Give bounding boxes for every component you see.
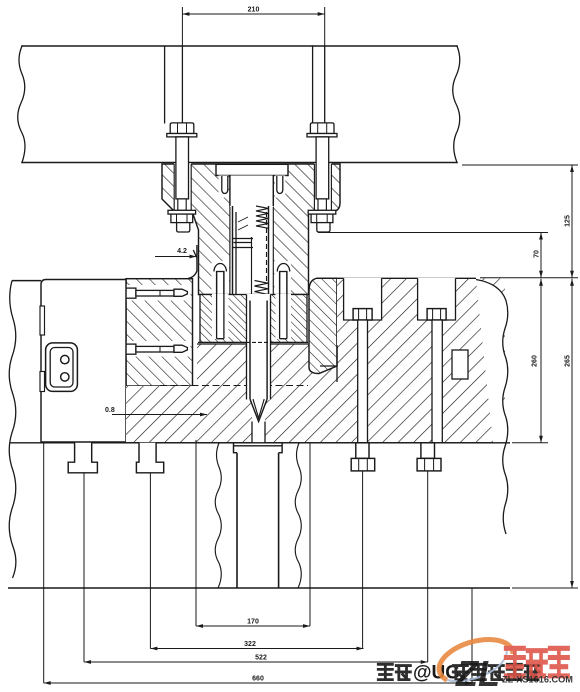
dim 70/260 vertical: [540, 233, 542, 443]
ext line 125 top: [462, 164, 578, 166]
break wavy line left of stem: [215, 443, 221, 588]
svg-text:170: 170: [247, 619, 259, 626]
horizontal bolt H2: [126, 344, 188, 354]
die insert sleeve: [309, 278, 337, 373]
right edge wavy of die blocks: [476, 280, 508, 569]
ext line die top right: [480, 277, 578, 279]
upper fixing screw S2: [275, 261, 292, 295]
punch retainer plate dense hatch: [200, 295, 307, 343]
svg-text:322: 322: [244, 641, 256, 648]
horizontal bolt H1: [126, 288, 188, 298]
bottom caption text: [378, 663, 539, 684]
ext line plate bottom right: [512, 587, 578, 589]
break wavy line right of stem: [295, 443, 301, 588]
bottom dim lines: [44, 626, 472, 683]
svg-text:ZL-XS1616.COM: ZL-XS1616.COM: [502, 675, 573, 685]
ext line 70 top: [318, 232, 548, 234]
watermark logo: [439, 640, 573, 692]
leader 0.8: [112, 414, 207, 416]
horizontal bolt channel 2: [127, 341, 191, 357]
svg-text:ZL: ZL: [455, 653, 500, 692]
punch stem: [237, 453, 279, 588]
upper fixing screw S1: [212, 261, 230, 295]
dim 210 line and ext: [182, 7, 324, 46]
left lower column hatched: [126, 279, 193, 386]
dimension texts: [105, 7, 572, 683]
bottom ext verticals: [44, 440, 472, 683]
pin P2: [277, 176, 283, 194]
upper die shoe (flange + body) hatched: [162, 164, 340, 295]
svg-text:0.8: 0.8: [105, 407, 115, 414]
svg-text:265: 265: [565, 355, 572, 367]
punch shank inside chamber: [233, 212, 267, 296]
bolt clearance holes in flange: [174, 163, 191, 212]
square nut bolt N2: [421, 443, 435, 459]
spring upper coil: [256, 206, 269, 228]
punch channel through retainer: [247, 294, 271, 343]
square nut bolt N1: [356, 443, 369, 459]
left gib block (unhatched): [41, 280, 126, 443]
svg-text:260: 260: [532, 355, 539, 367]
svg-text:4.2: 4.2: [177, 248, 187, 255]
bolt counterbore notch 1: [344, 278, 382, 320]
cavity whites: [216, 164, 288, 175]
key block small rect: [452, 350, 468, 379]
bolt hole lines in slide: [165, 46, 325, 123]
pin P1: [222, 176, 228, 194]
vertical bolt V1 head: [353, 309, 372, 320]
press slide left wavy edge: [18, 46, 25, 163]
bolt V1 shaft: [358, 320, 368, 443]
punch body and tip: [247, 301, 271, 443]
bolt V2 shaft: [432, 320, 442, 443]
bracket plate with two holes: [46, 343, 78, 392]
clamp bolt B1: [167, 123, 197, 232]
hidden seam dashed line: [160, 385, 308, 387]
bolt counterbore notch 2: [418, 278, 456, 320]
ext line die bottom right: [512, 442, 548, 444]
dim 125/265 vertical: [571, 165, 573, 588]
svg-text:210: 210: [248, 7, 260, 14]
lower die block D hatched: [126, 344, 505, 443]
support leg L1: [68, 443, 97, 473]
vertical bolt V2 head: [427, 309, 446, 320]
punch stem boss: [234, 443, 283, 453]
left bolster wavy edge: [9, 281, 16, 578]
press slide plate top: [22, 46, 457, 163]
svg-text:125: 125: [565, 215, 572, 227]
leader 4.2: [155, 256, 197, 258]
column top fillet horn: [188, 245, 197, 279]
support leg L2: [136, 443, 163, 473]
pin clearance notches: [219, 176, 229, 198]
clamp bolt B2: [307, 123, 337, 232]
retainer bottom seam: [198, 341, 308, 343]
horizontal bolt channel 1: [127, 285, 191, 301]
svg-text:660: 660: [252, 676, 264, 683]
bottom plate band: [10, 442, 510, 444]
spring lower coil: [255, 281, 269, 300]
svg-text:522: 522: [255, 655, 267, 662]
right die plate C hatched: [337, 278, 505, 345]
gib edge strips: [40, 306, 45, 335]
svg-text:70: 70: [534, 250, 541, 258]
press slide right wavy edge: [453, 46, 460, 163]
punch slot white through D: [247, 343, 271, 443]
